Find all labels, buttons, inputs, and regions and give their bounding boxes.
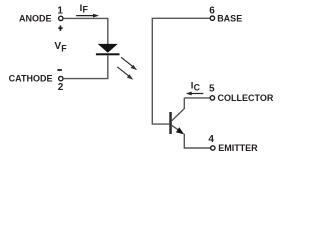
wire emitter to terminal (down then right) [184,134,210,148]
svg-text:1: 1 [57,6,63,17]
wire base: terminal left then down to transistor [152,18,210,124]
svg-text:CATHODE: CATHODE [9,73,53,83]
label COLLECTOR [218,93,274,103]
LED D1 cathode bar [96,53,120,55]
value label VF [54,41,67,54]
svg-text:4: 4 [208,134,214,145]
pin 1 [57,6,63,17]
terminal pin 6 (base) [210,16,214,20]
svg-text:ANODE: ANODE [19,14,52,24]
wire collector to terminal [184,97,210,99]
terminal pin 2 (cathode) [59,76,63,80]
pin 6 [209,6,215,17]
current label IC [191,80,201,92]
IC current arrow [186,92,204,96]
terminal pin 1 (anode) [59,16,63,20]
minus polarity mark [57,69,62,71]
pin 4 [208,134,214,145]
svg-text:2: 2 [58,82,64,93]
current label IF [80,3,89,15]
label BASE [217,13,242,23]
svg-text:EMITTER: EMITTER [218,143,258,153]
wire LED to cathode (down then left) [63,55,108,79]
plus polarity mark [58,25,62,31]
pin 5 [209,84,215,95]
svg-text:BASE: BASE [217,13,242,23]
svg-text:6: 6 [209,6,215,17]
svg-text:COLLECTOR: COLLECTOR [218,93,274,103]
transistor Q1 emitter stroke [172,125,180,130]
transistor Q1 collector stroke [172,98,185,121]
svg-text:C: C [194,82,201,92]
IF current arrow [76,14,99,18]
transistor Q1 emitter arrowhead [176,127,184,134]
transistor Q1 base bar [169,112,172,134]
svg-text:F: F [61,44,67,54]
label EMITTER [218,143,258,153]
light emission arrow 2 [117,67,133,80]
label ANODE [19,14,52,24]
pin 2 [58,82,64,93]
svg-text:F: F [83,5,89,15]
svg-text:5: 5 [209,84,215,95]
LED D1 triangle (anode) [98,44,118,53]
terminal pin 4 (emitter) [211,146,215,150]
label CATHODE [9,73,53,83]
wire anode to LED (right then down) [63,18,108,44]
light emission arrow 1 [121,57,137,70]
terminal pin 5 (collector) [210,96,214,100]
